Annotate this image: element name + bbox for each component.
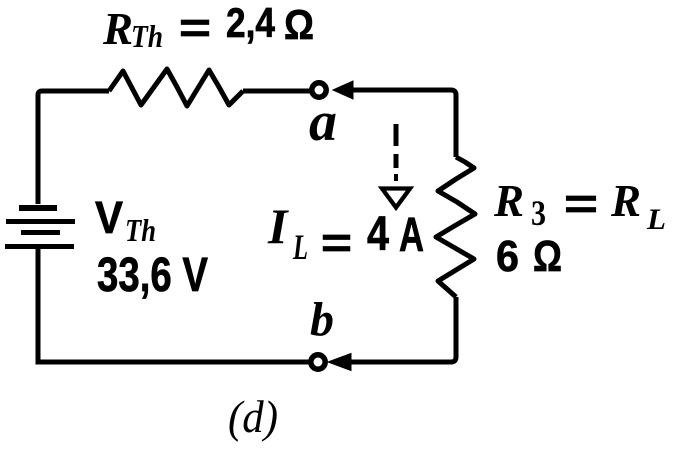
label R3 = RL	[493, 176, 666, 236]
wire bottom-left segment	[38, 360, 309, 365]
label R_Th = 2,4 ohm	[102, 0, 314, 54]
svg-text:L: L	[292, 227, 308, 267]
wire bottom-right segment	[351, 297, 456, 362]
svg-text:=: =	[179, 4, 211, 51]
svg-text:b: b	[310, 293, 334, 346]
resistor R3	[436, 157, 475, 297]
arrow into node a	[333, 81, 353, 99]
svg-text:R: R	[493, 176, 524, 226]
battery plate long upper	[6, 219, 75, 224]
node a terminal	[312, 83, 326, 97]
wire top-right segment	[351, 90, 456, 157]
battery plate short lower	[21, 230, 60, 235]
battery plate short top	[19, 205, 57, 211]
label 6 ohm	[496, 232, 562, 281]
svg-text:I: I	[267, 198, 289, 254]
battery V_Th	[5, 205, 75, 249]
battery plate long bottom	[5, 244, 74, 249]
svg-text:=: =	[564, 180, 598, 227]
svg-text:R: R	[610, 176, 641, 226]
svg-text:2,4: 2,4	[226, 0, 276, 46]
wire from resistor to node a	[243, 89, 310, 94]
svg-text:6: 6	[496, 232, 519, 281]
svg-text:Th: Th	[131, 18, 163, 54]
arrow into node b	[328, 354, 351, 371]
svg-text:R: R	[102, 4, 133, 54]
svg-text:33,6 V: 33,6 V	[97, 249, 208, 302]
svg-text:L: L	[646, 203, 666, 236]
svg-text:Ω: Ω	[533, 232, 562, 281]
svg-text:A: A	[399, 209, 424, 262]
svg-text:Ω: Ω	[284, 1, 314, 48]
svg-text:V: V	[95, 192, 123, 243]
svg-text:4: 4	[367, 208, 389, 261]
svg-text:3: 3	[531, 193, 546, 233]
wire top-left segment	[38, 91, 109, 204]
svg-text:a: a	[309, 91, 337, 153]
node b terminal	[311, 355, 325, 369]
svg-text:=: =	[321, 219, 352, 266]
label I_L = 4 A	[267, 198, 424, 267]
resistor R_Th	[109, 69, 243, 106]
label V_Th	[95, 192, 156, 248]
dashed current arrow I_L	[382, 124, 410, 208]
svg-text:(d): (d)	[228, 391, 278, 442]
svg-text:Th: Th	[125, 212, 156, 248]
